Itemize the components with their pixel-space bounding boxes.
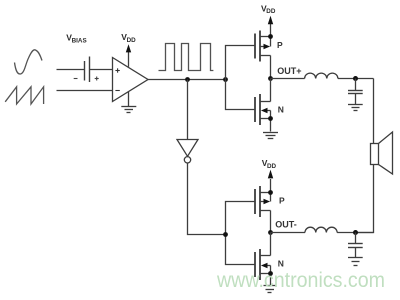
capacitor C3 [348, 233, 363, 258]
bottom gate bus wires [226, 202, 256, 265]
transistor P bottom arrow [264, 199, 271, 204]
wire right rail to speaker plus [373, 79, 375, 144]
wire sawtooth to comparator - input [57, 90, 113, 92]
svg-text:DD: DD [127, 37, 137, 44]
node dot OUT+ [268, 76, 273, 81]
speaker LS1 [371, 132, 393, 174]
ground C2 [348, 105, 363, 111]
wire sine source to capacitor [57, 69, 85, 71]
svg-text:P: P [277, 40, 283, 50]
node dot L1 C2 [353, 76, 358, 81]
VDD arrow top bridge [268, 16, 273, 37]
node dot top P source [268, 34, 273, 39]
transistor N top arrow [261, 108, 268, 113]
sawtooth wave source symbol [5, 87, 43, 104]
wire OUT- to inductor [271, 232, 306, 234]
node junction top gate bus [223, 77, 228, 82]
VDD label bottom bridge [262, 158, 277, 170]
sine wave source symbol [15, 50, 43, 74]
wire inductor to filter node [338, 78, 374, 80]
node junction bottom gate bus [223, 232, 228, 237]
svg-text:OUT-: OUT- [275, 219, 297, 229]
svg-text:P: P [279, 195, 285, 205]
capacitor C1 polarity marks [74, 77, 99, 81]
svg-text:OUT+: OUT+ [277, 66, 301, 76]
capacitor C2 [348, 79, 363, 105]
wire inductor to filter node bottom [337, 232, 373, 234]
top gate bus wires [226, 46, 256, 110]
svg-text:www.cntronics.com: www.cntronics.com [216, 268, 385, 292]
svg-text:DD: DD [267, 163, 277, 170]
transistor P top PMOS [255, 31, 271, 79]
wire comparator output to gate bus [148, 79, 226, 81]
wire OUT+ to inductor [271, 78, 305, 80]
node dot top N source [268, 116, 273, 121]
VDD arrow bottom bridge [268, 170, 273, 193]
PWM waveform glyph [159, 44, 214, 71]
inductor L2 [305, 227, 337, 232]
inverter U2 [177, 140, 198, 164]
svg-text:DD: DD [266, 8, 276, 15]
transistor P top arrow [264, 44, 271, 49]
node dot bottom N source [268, 271, 273, 276]
ground top NMOS [263, 133, 278, 139]
inductor L1 [305, 73, 338, 78]
ground C3 [348, 258, 363, 266]
wire speaker minus down right rail [356, 165, 374, 233]
svg-text:BIAS: BIAS [72, 37, 87, 44]
ground comparator [121, 92, 136, 113]
transistor N top NMOS [255, 79, 271, 132]
transistor N bottom NMOS [255, 233, 271, 286]
wire capacitor to comparator + input [90, 69, 113, 71]
VDD label comparator [121, 32, 136, 44]
VDD arrow comparator [126, 44, 131, 67]
VDD label top bridge [261, 3, 276, 15]
svg-text:N: N [278, 259, 284, 269]
transistor P bottom PMOS [255, 186, 271, 233]
wire junction to inverter input [187, 80, 189, 140]
node dot bottom P source [268, 190, 273, 195]
node junction inverter branch [185, 77, 190, 82]
ground bottom NMOS [264, 286, 277, 293]
node dot L2 C3 [353, 230, 358, 235]
wire inverter output to bottom gate bus [188, 163, 226, 235]
node dot OUT- [268, 230, 273, 235]
svg-text:N: N [278, 105, 284, 115]
op-amp comparator U1 [113, 58, 149, 102]
VBIAS label [66, 32, 86, 44]
capacitor C1 VBIAS coupling [85, 57, 90, 83]
transistor N bottom arrow [261, 263, 268, 268]
